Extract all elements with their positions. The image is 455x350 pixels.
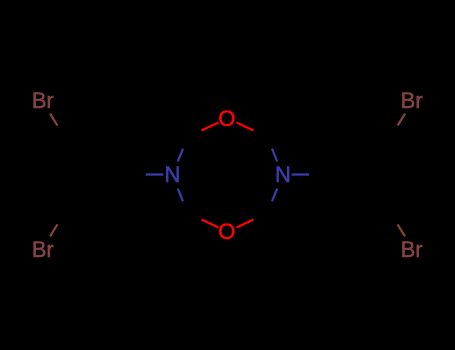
bond O1-C2 red half (top right) <box>237 123 254 131</box>
bond C-Br dark red half (top right) <box>398 114 405 126</box>
atom O1 (top oxygen) <box>218 106 235 131</box>
bond C-Br dark red half (top left) <box>50 114 57 126</box>
atom Br (bottom right) <box>401 237 423 262</box>
benzene ring right (3,5-dibromophenyl) <box>328 138 414 212</box>
atom Br (bottom left) <box>32 237 54 262</box>
bond C-Br dark red half (bottom left) <box>50 224 57 236</box>
bond O5-C4 red half (bottom right) <box>237 220 254 228</box>
atom N7 (left nitrogen) <box>165 162 181 187</box>
bond N3-aryl blue half (right) <box>292 173 310 175</box>
bond C-Br dark red half (bottom right) <box>398 224 405 236</box>
svg-text:O: O <box>218 219 235 244</box>
bond N3-C4 blue half (right lower) <box>272 189 277 202</box>
bond N3-C2 blue half (right upper) <box>272 149 277 162</box>
svg-text:Br: Br <box>401 237 423 262</box>
bond O5-C6 red half (bottom left) <box>202 220 219 228</box>
bond O1-C8 red half (top left) <box>202 123 219 131</box>
atom O5 (bottom oxygen) <box>218 219 235 244</box>
wire: octagon carbon corner segments <box>180 127 275 223</box>
svg-text:Br: Br <box>401 88 423 113</box>
atom N3 (right nitrogen) <box>275 162 291 187</box>
svg-text:Br: Br <box>32 237 54 262</box>
bond N7-C6 blue half (left lower) <box>178 189 183 202</box>
svg-text:N: N <box>165 162 181 187</box>
benzene ring left (3,5-dibromophenyl) <box>42 138 128 212</box>
svg-text:O: O <box>218 106 235 131</box>
wire: N-aryl carbon halves <box>53 119 403 231</box>
bond N7-C8 blue half (left upper) <box>178 149 183 162</box>
atom Br (top left) <box>32 88 54 113</box>
svg-text:N: N <box>275 162 291 187</box>
atom Br (top right) <box>401 88 423 113</box>
svg-text:Br: Br <box>32 88 54 113</box>
bond N7-aryl blue half (left) <box>146 173 164 175</box>
